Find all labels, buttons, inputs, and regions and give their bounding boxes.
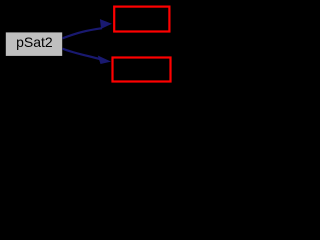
wire edge to top node bbox=[63, 28, 103, 38]
arrowhead bottom bbox=[98, 56, 111, 65]
wire edge to bottom node bbox=[63, 49, 101, 60]
node pSat2 (current node, grey) bbox=[6, 32, 62, 56]
arrowhead top bbox=[100, 19, 112, 29]
dependency graph canvas bbox=[0, 0, 176, 88]
svg-text:pSat2: pSat2 bbox=[16, 34, 53, 50]
node bottom (red, truncated) bbox=[113, 58, 171, 82]
node top (red, truncated) bbox=[114, 7, 169, 32]
